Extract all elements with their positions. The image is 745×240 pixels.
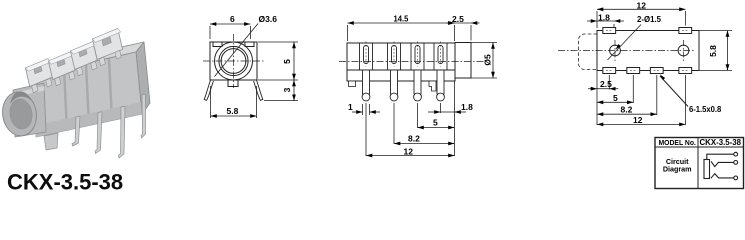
circuit: shunt switch wire — [711, 174, 734, 179]
svg-text:6-1.5x0.8: 6-1.5x0.8 — [689, 104, 722, 114]
svg-text:8.2: 8.2 — [408, 134, 420, 144]
side view lower edge line — [347, 69, 455, 71]
svg-text:3: 3 — [282, 87, 292, 92]
dimension 12 (bottom of top view) — [597, 123, 686, 125]
top view hole circle 1 — [610, 45, 621, 56]
3d connector cylinder tube — [13, 83, 46, 137]
side view contact tower 4 — [434, 42, 447, 101]
3d connector body top face — [38, 42, 144, 74]
svg-text:Ø3.6: Ø3.6 — [259, 14, 278, 24]
svg-text:5: 5 — [282, 59, 292, 64]
svg-text:8.2: 8.2 — [621, 105, 633, 115]
top view pad bottom-4 — [679, 68, 692, 74]
front view top notch left — [213, 42, 222, 47]
svg-text:2.5: 2.5 — [600, 79, 612, 89]
top view dashed barrel — [579, 34, 598, 70]
dimension 5 (side) — [418, 127, 455, 129]
svg-text:1: 1 — [348, 102, 353, 112]
dimension 14.5 — [348, 23, 455, 41]
top view hole circle 2 — [678, 45, 689, 56]
dimension 6 — [210, 24, 250, 39]
extension line pin3 — [417, 103, 419, 128]
3d clip contact 3 — [70, 41, 102, 76]
3d connector cylinder bore shadow — [11, 92, 32, 104]
dimension 3 (front) — [264, 80, 298, 101]
dimension 5.8 (front) — [211, 86, 257, 118]
side view contact tower 3 — [411, 42, 424, 101]
dimension 1 (pin width) — [352, 104, 380, 115]
side view barrel — [455, 43, 471, 79]
svg-text:5: 5 — [613, 93, 618, 103]
dimension diameter 5 — [471, 43, 497, 79]
svg-text:5: 5 — [433, 118, 438, 128]
top view pad bottom-1 — [603, 68, 616, 74]
front view right leg — [254, 80, 263, 100]
3d clip contact 4 — [91, 28, 127, 66]
circuit: sleeve contact body — [704, 160, 710, 179]
3d leg 1 — [72, 116, 80, 146]
front view vertical centerline — [233, 34, 235, 88]
3d connector body front face — [36, 52, 142, 137]
3d leg 3 — [119, 106, 126, 158]
3d connector cylinder bore — [8, 97, 34, 130]
side view bracket tab — [429, 81, 436, 91]
extension line pin2 — [393, 103, 395, 144]
extension line body right — [454, 81, 456, 156]
circuit: tip wire — [707, 154, 734, 159]
top view body — [597, 31, 699, 71]
svg-text:CKX-3.5-38: CKX-3.5-38 — [700, 138, 742, 147]
svg-text:1.8: 1.8 — [461, 102, 473, 112]
dimension 1.8 (top view) — [587, 21, 624, 27]
svg-text:5.8: 5.8 — [708, 45, 718, 57]
3d connector cylinder tube highlight — [14, 86, 45, 97]
svg-text:2-Ø1.5: 2-Ø1.5 — [637, 14, 661, 24]
3d clip contact 1 — [25, 58, 57, 93]
front view horizontal centerline — [203, 60, 264, 62]
dimension 8.2 (side) — [394, 143, 455, 145]
table frame — [655, 138, 744, 189]
side view contact tower 2 — [388, 42, 401, 101]
dimension 1.8 (side) — [428, 111, 466, 113]
svg-text:12: 12 — [633, 115, 643, 125]
circuit: ring terminal — [734, 161, 738, 165]
svg-text:MODEL No.: MODEL No. — [659, 138, 696, 147]
svg-text:6: 6 — [230, 14, 235, 24]
table header divider — [655, 146, 744, 148]
3d connector body right face — [136, 42, 150, 114]
front view ring inner — [221, 49, 246, 74]
circuit: shunt terminal — [734, 176, 738, 180]
side view body — [347, 43, 455, 81]
top view centerline horizontal — [558, 50, 695, 52]
top view pad bottom-3 — [650, 68, 663, 74]
front view outer circle — [215, 42, 253, 80]
svg-text:1.8: 1.8 — [598, 13, 610, 23]
svg-text:Ø5: Ø5 — [483, 54, 493, 66]
circuit: tip terminal — [734, 152, 738, 156]
3d front tab leg — [44, 133, 58, 150]
dimension 12 (top of top view) — [597, 9, 686, 28]
front view center post — [228, 80, 238, 87]
svg-text:14.5: 14.5 — [394, 14, 409, 24]
svg-text:12: 12 — [404, 147, 414, 157]
top view pad bottom-2 — [627, 68, 640, 74]
svg-text:CKX-3.5-38: CKX-3.5-38 — [7, 169, 123, 191]
svg-text:2.5: 2.5 — [452, 14, 464, 24]
extension line pin1 — [365, 103, 367, 156]
3d connector front face lower band — [36, 102, 142, 137]
3d leg 4 — [141, 94, 146, 138]
front view body — [210, 42, 257, 80]
3d leg 2 — [95, 112, 102, 154]
dimension 2.5 (side) — [446, 23, 480, 41]
extension line pin4 — [440, 103, 442, 113]
table column divider — [697, 138, 699, 189]
3d clip contact 2 — [48, 51, 80, 86]
extension lines bottom dims — [597, 71, 686, 126]
circuit: ring switch wire — [711, 161, 734, 166]
top view pad top-right — [679, 28, 692, 34]
dimension 12 (side) — [366, 155, 455, 157]
side view left step tab — [349, 81, 356, 87]
side view horizontal centerline — [339, 61, 485, 63]
dimension 8.2 (top view) — [597, 113, 657, 115]
front view left leg — [204, 80, 213, 100]
front view ring outer — [219, 46, 248, 75]
dimension 5.8 (top view) — [699, 31, 732, 71]
svg-text:Diagram: Diagram — [663, 165, 692, 174]
dimension 5 (front) — [258, 42, 298, 80]
side view contact tower 1 — [360, 42, 373, 101]
dimension 2.5 (top view) — [588, 88, 618, 90]
dimension leader Ø3.6 — [215, 24, 259, 77]
dimension 5 (top view) — [597, 101, 633, 103]
top view pad top-left — [603, 28, 616, 34]
svg-text:5.8: 5.8 — [227, 106, 239, 116]
front view top notch right — [245, 42, 254, 47]
top view centerline circle1 vertical — [614, 40, 616, 61]
svg-text:12: 12 — [637, 0, 647, 10]
3d connector cylinder cap rim — [0, 90, 40, 139]
top view centerline circle2 vertical — [683, 40, 685, 61]
3d connector front face groove shadows — [64, 59, 112, 132]
